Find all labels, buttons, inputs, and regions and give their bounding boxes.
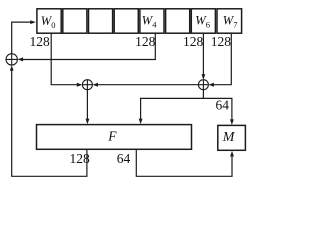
wire: W0 down and right into middle XOR [51, 34, 79, 85]
arrowhead into F top left [86, 119, 90, 125]
block F [37, 125, 192, 150]
svg-text:64: 64 [216, 97, 230, 112]
arrowhead into F top right [139, 119, 143, 125]
register cell W4 [140, 9, 164, 33]
XOR gate left [6, 54, 17, 65]
wire: branch to F top and M top [141, 98, 232, 122]
register cell 3 [89, 9, 113, 33]
arrowhead into middle XOR from right [92, 83, 98, 87]
register cell W7 [217, 9, 242, 33]
wire: left XOR output up and into W0 [12, 22, 34, 54]
svg-text:64: 64 [117, 151, 131, 166]
svg-text:128: 128 [183, 34, 204, 49]
XOR gate right [198, 80, 208, 90]
wire: F 128-bit output feedback to left XOR [12, 68, 87, 176]
svg-text:M: M [222, 130, 236, 145]
block M [218, 125, 246, 150]
register cell 6 [166, 9, 190, 33]
register cell 4 [114, 9, 138, 33]
arrowhead into M bottom [230, 151, 234, 157]
arrowhead into left XOR from right [18, 57, 24, 61]
register cell W6 [191, 9, 215, 33]
XOR gate middle [82, 80, 92, 90]
wire: middle XOR down into F [86, 90, 88, 122]
wire: right XOR output left into middle XOR [95, 84, 198, 86]
wire: right XOR output down to branch [202, 90, 204, 99]
wire: F 64-bit output to M bottom [136, 149, 232, 176]
svg-text:128: 128 [211, 34, 232, 49]
svg-text:128: 128 [69, 151, 90, 166]
svg-text:128: 128 [30, 34, 51, 49]
svg-text:128: 128 [135, 34, 156, 49]
arrowhead into left XOR from below [10, 65, 14, 71]
wire: W6 down into right XOR [202, 34, 204, 78]
arrowhead into right XOR from right [208, 83, 214, 87]
arrowhead into middle XOR from left [77, 83, 83, 87]
arrowhead into right XOR from top [202, 74, 206, 80]
register cell 2 [63, 9, 87, 33]
register cell W0 [37, 9, 61, 33]
wire: W4 down and left into left XOR [20, 34, 155, 60]
arrowhead into M top [230, 119, 234, 125]
arrowhead into W0 [30, 20, 36, 24]
svg-text:F: F [107, 129, 117, 144]
wire: W7 down and left into right XOR [211, 34, 231, 85]
